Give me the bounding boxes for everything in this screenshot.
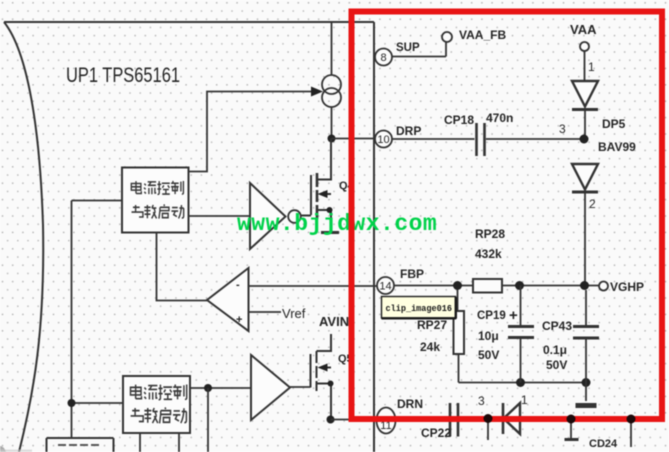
svg-text:+: + bbox=[509, 307, 518, 324]
svg-text:VAA_FB: VAA_FB bbox=[459, 28, 506, 42]
svg-text:BAV99: BAV99 bbox=[598, 140, 636, 154]
svg-text:+: + bbox=[236, 314, 242, 326]
svg-text:2: 2 bbox=[589, 197, 596, 211]
svg-text:3: 3 bbox=[559, 122, 566, 136]
svg-text:50V: 50V bbox=[478, 348, 499, 362]
svg-text:432k: 432k bbox=[475, 247, 502, 261]
svg-text:14: 14 bbox=[379, 281, 391, 293]
svg-text:1: 1 bbox=[521, 393, 528, 407]
svg-text:FBP: FBP bbox=[400, 267, 424, 281]
svg-text:RP27: RP27 bbox=[417, 318, 447, 332]
svg-text:CP22: CP22 bbox=[421, 426, 451, 440]
svg-text:8: 8 bbox=[380, 52, 386, 64]
svg-text:CP18: CP18 bbox=[444, 113, 474, 127]
svg-text:10: 10 bbox=[377, 134, 389, 146]
svg-text:SUP: SUP bbox=[396, 42, 420, 54]
svg-text:RP28: RP28 bbox=[475, 227, 505, 241]
svg-text:24k: 24k bbox=[420, 340, 440, 354]
svg-text:Vref: Vref bbox=[282, 306, 306, 321]
svg-text:3: 3 bbox=[478, 394, 485, 408]
svg-text:CP43: CP43 bbox=[542, 319, 572, 333]
svg-text:DP5: DP5 bbox=[602, 117, 626, 131]
svg-text:CP19: CP19 bbox=[477, 310, 506, 322]
svg-text:1: 1 bbox=[588, 60, 595, 74]
svg-text:0.1μ: 0.1μ bbox=[543, 343, 567, 357]
svg-text:-: - bbox=[236, 279, 240, 291]
svg-text:clip_image016: clip_image016 bbox=[386, 303, 453, 314]
svg-text:50V: 50V bbox=[546, 358, 567, 372]
svg-text:CD24: CD24 bbox=[589, 438, 618, 450]
svg-text:www.bjjdwx.com: www.bjjdwx.com bbox=[237, 211, 437, 237]
svg-text:VGHP: VGHP bbox=[610, 280, 644, 294]
svg-text:10μ: 10μ bbox=[478, 329, 499, 343]
svg-text:DRN: DRN bbox=[397, 397, 423, 411]
svg-text:UP1 TPS65161: UP1 TPS65161 bbox=[66, 64, 180, 87]
svg-text:AVIN: AVIN bbox=[319, 314, 349, 329]
svg-text:VAA: VAA bbox=[570, 22, 597, 37]
svg-text:470n: 470n bbox=[486, 111, 513, 125]
svg-text:DRP: DRP bbox=[396, 124, 421, 138]
